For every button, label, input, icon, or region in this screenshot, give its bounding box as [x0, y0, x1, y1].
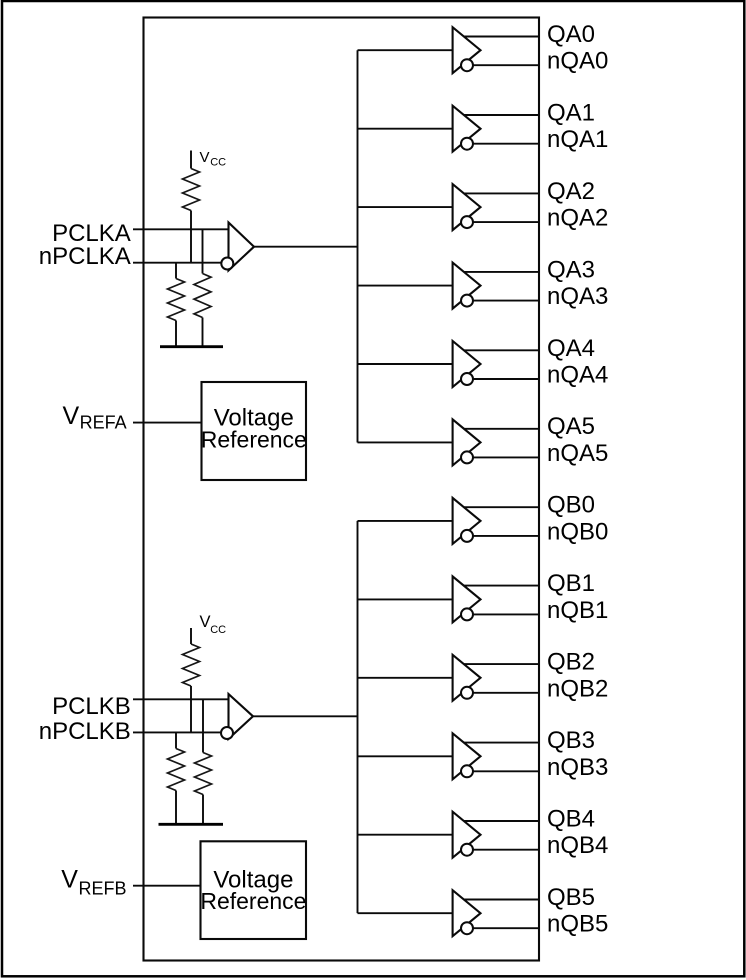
svg-text:nQA1: nQA1: [547, 126, 608, 153]
svg-text:nPCLKA: nPCLKA: [39, 243, 131, 270]
svg-text:nQA3: nQA3: [547, 283, 608, 310]
wire: [202, 699, 204, 752]
svg-text:QA4: QA4: [547, 335, 595, 362]
wire QA5: [464, 428, 540, 430]
wire: [358, 755, 453, 757]
wire: [190, 211, 192, 263]
wire: [358, 441, 453, 443]
wire nQB0: [473, 535, 540, 537]
buffer QA0 driver: [453, 27, 481, 73]
resistor RA3 pull-down: [194, 274, 211, 347]
svg-text:V: V: [200, 613, 211, 631]
svg-text:nQB2: nQB2: [547, 675, 608, 702]
wire: [253, 715, 358, 717]
svg-text:QB4: QB4: [547, 806, 595, 833]
wire QA3: [464, 271, 540, 273]
svg-text:V: V: [61, 865, 78, 893]
power Vcc A: [191, 149, 226, 169]
wire nQB1: [473, 613, 540, 615]
svg-text:nQB3: nQB3: [547, 754, 608, 781]
wire nQB5: [473, 927, 540, 929]
svg-text:nPCLKB: nPCLKB: [39, 718, 131, 745]
buffer QB0 driver: [453, 498, 481, 544]
svg-text:QA5: QA5: [547, 413, 595, 440]
wire QB5: [464, 899, 540, 901]
svg-text:REFA: REFA: [80, 413, 127, 433]
wire QB3: [464, 742, 540, 744]
svg-text:CC: CC: [210, 157, 226, 169]
buffer QA4 driver: [453, 341, 481, 387]
svg-text:QA1: QA1: [547, 100, 595, 127]
wire bus A: [357, 50, 359, 442]
resistor RA1 pull-up: [183, 169, 200, 211]
svg-text:QA2: QA2: [547, 178, 595, 205]
wire QA0: [464, 36, 540, 38]
power Vcc B: [191, 613, 226, 644]
svg-text:QB3: QB3: [547, 727, 595, 754]
wire QA4: [464, 349, 540, 351]
wire: [358, 49, 453, 51]
wire: [358, 677, 453, 679]
buffer QA3 driver: [453, 263, 481, 309]
svg-text:nQB4: nQB4: [547, 832, 608, 859]
ground B: [159, 823, 224, 826]
buffer QA1 driver: [453, 106, 481, 152]
node VREFA: [63, 402, 127, 433]
buffer UB PCLKB differential receiver: [221, 694, 253, 739]
svg-text:QA0: QA0: [547, 21, 595, 48]
buffer QB4 driver: [453, 812, 481, 858]
svg-text:QB0: QB0: [547, 492, 595, 519]
wire nQA4: [473, 378, 540, 380]
svg-text:QA3: QA3: [547, 256, 595, 283]
buffer QB5 driver: [453, 890, 481, 936]
resistor RA2 pull-down: [168, 263, 185, 347]
wire: [358, 128, 453, 130]
resistor RB1 pull-up: [183, 644, 200, 686]
wire QB2: [464, 663, 540, 665]
wire nQB3: [473, 770, 540, 772]
wire: [190, 686, 192, 732]
buffer QB3 driver: [453, 733, 481, 779]
wire nQA5: [473, 456, 540, 458]
wire: [358, 363, 453, 365]
block Voltage Reference B: [200, 841, 306, 939]
svg-text:Reference: Reference: [201, 426, 307, 452]
chip outline: [144, 18, 540, 961]
buffer UA PCLKA differential receiver: [221, 223, 254, 271]
wire QA1: [464, 114, 540, 116]
svg-text:nQB1: nQB1: [547, 597, 608, 624]
wire nPCLKB: [133, 731, 222, 733]
svg-text:QB2: QB2: [547, 649, 595, 676]
svg-text:nQA2: nQA2: [547, 205, 608, 232]
wire PCLKB: [133, 698, 229, 700]
wire nQA0: [473, 64, 540, 66]
svg-text:PCLKB: PCLKB: [52, 693, 131, 720]
resistor RB3 pull-down: [195, 753, 212, 825]
buffer QA2 driver: [453, 184, 481, 230]
wire QB1: [464, 585, 540, 587]
wire QA2: [464, 192, 540, 194]
svg-text:CC: CC: [210, 624, 226, 636]
wire nQA2: [473, 221, 540, 223]
wire bus B: [357, 521, 359, 913]
buffer QB2 driver: [453, 655, 481, 701]
wire: [358, 598, 453, 600]
buffer QA5 driver: [453, 419, 481, 465]
svg-text:nQB0: nQB0: [547, 518, 608, 545]
wire nPCLKA: [133, 262, 222, 264]
wire: [358, 520, 453, 522]
wire VREFA: [133, 422, 202, 424]
svg-text:V: V: [63, 402, 80, 430]
wire: [358, 285, 453, 287]
wire: [254, 246, 358, 248]
svg-text:nQA5: nQA5: [547, 440, 608, 467]
ground A: [160, 345, 223, 348]
svg-text:QB1: QB1: [547, 570, 595, 597]
wire PCLKA: [133, 228, 229, 230]
wire: [358, 206, 453, 208]
svg-text:QB5: QB5: [547, 884, 595, 911]
wire: [358, 834, 453, 836]
wire: [358, 912, 453, 914]
svg-text:nQB5: nQB5: [547, 911, 608, 938]
wire QB0: [464, 506, 540, 508]
wire VREFB: [133, 885, 201, 887]
svg-text:REFB: REFB: [79, 878, 127, 898]
wire nQA1: [473, 143, 540, 145]
svg-text:V: V: [200, 149, 210, 166]
block Voltage Reference A: [201, 382, 307, 480]
svg-text:Reference: Reference: [200, 888, 306, 914]
wire QB4: [464, 820, 540, 822]
wire nQA3: [473, 300, 540, 302]
wire nQB2: [473, 692, 540, 694]
svg-text:nQA0: nQA0: [547, 48, 608, 75]
buffer QB1 driver: [453, 576, 481, 622]
node VREFB: [61, 865, 126, 898]
wire: [202, 229, 204, 273]
resistor RB2 pull-down: [168, 732, 185, 824]
svg-text:nQA4: nQA4: [547, 362, 608, 389]
wire nQB4: [473, 849, 540, 851]
